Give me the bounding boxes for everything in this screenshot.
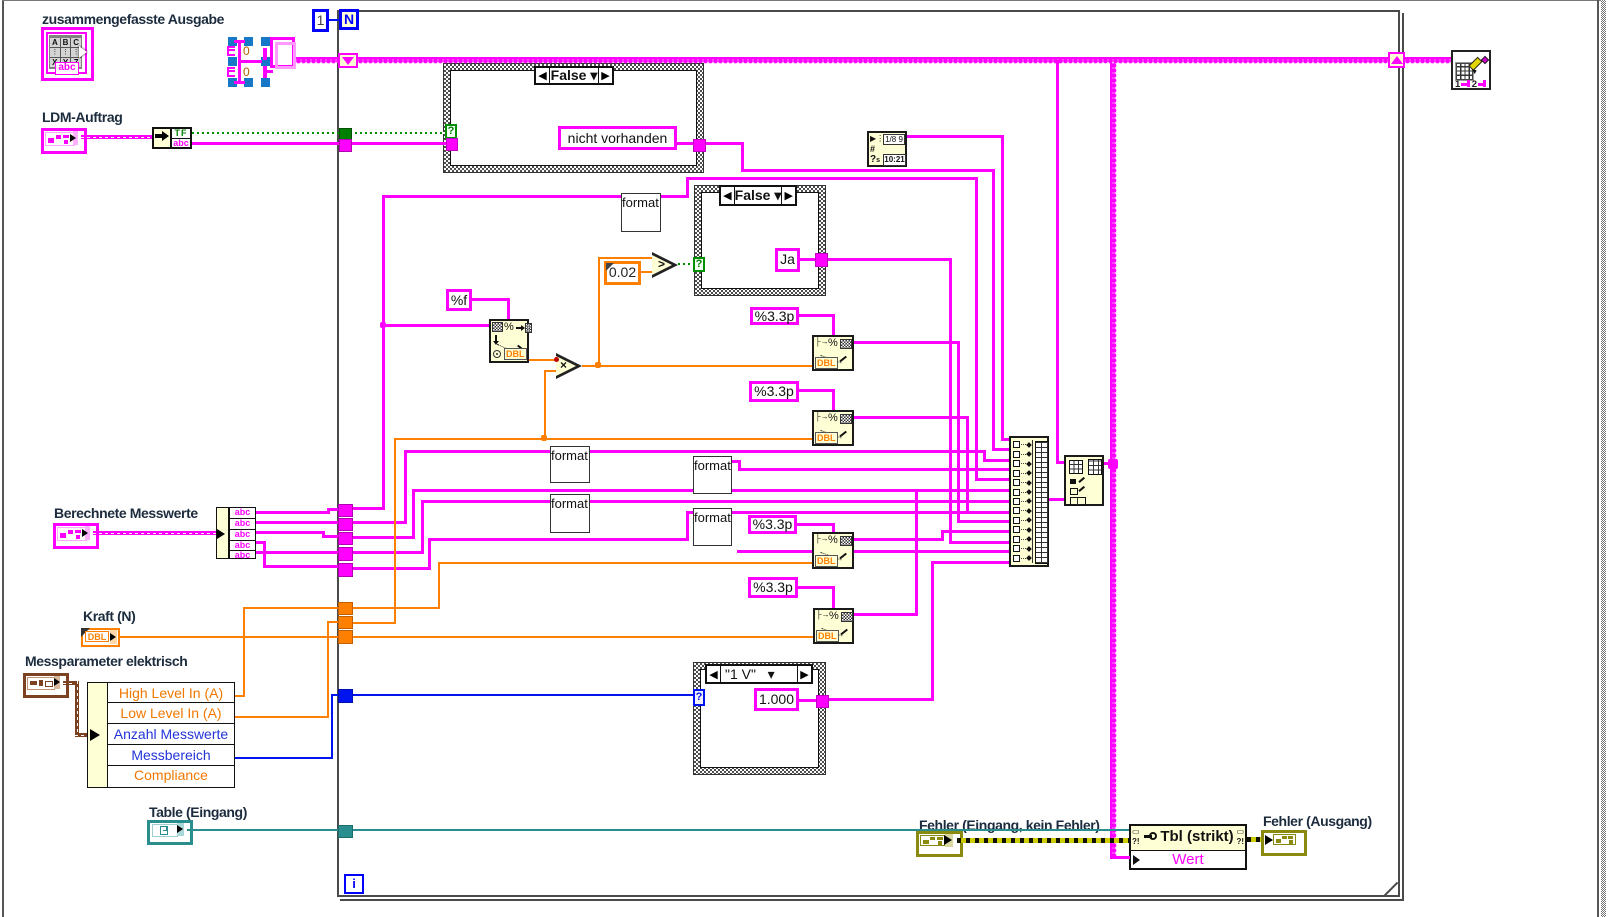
label Kraft (N)	[83, 608, 135, 624]
case 1 selector label	[534, 66, 614, 85]
vertical 2D wire from SR line down to build-table output and Wert property	[1110, 63, 1117, 858]
unbundle node (5 x abc)	[216, 507, 229, 559]
orange branch up to multiply lower input	[544, 370, 546, 440]
case structure 2 border	[694, 185, 826, 296]
loop count terminal N	[339, 9, 359, 30]
wire %3.3p4 to format-into-string4	[798, 586, 835, 589]
element: empty string constant square	[270, 37, 295, 68]
wire SR branch down to build table accumulated-table input	[1056, 60, 1059, 462]
wire LDM control to converter (cluster wire)	[81, 135, 153, 139]
wire date/time out right then down x1001 to concat row1	[907, 135, 1004, 138]
error wire control to property node	[957, 838, 1129, 843]
pane boundary chequer strip right	[1601, 0, 1606, 917]
wire scan DBL out to multiply	[529, 359, 556, 361]
error cluster indicator Fehler Ausgang	[1261, 830, 1307, 856]
initialize array node frame (magenta)	[238, 40, 241, 84]
wire TF boolean to loop tunnel (green dotted)	[192, 132, 340, 134]
subVI icon (table write, top right outside loop)	[1451, 50, 1491, 90]
label zusammengefasste Ausgabe	[42, 11, 224, 27]
string constant Ja	[775, 248, 800, 272]
wire Berechnete control to unbundle (cluster wire)	[93, 531, 217, 535]
orange wire tunnelC straight right to E+%4 DBL input	[351, 636, 813, 638]
orange wire tunnelB right, up x394, y438 long right to E+%2 DBL input	[351, 622, 396, 624]
wire Berechnete-4: tunnel4 right, riser x421 up, long y500 to concat row7	[351, 551, 424, 554]
case 2 selector tunnel ?	[693, 257, 705, 272]
wire Table control to loop tunnel (teal)	[187, 829, 338, 831]
wire 0.02 to greater-than bottom input	[641, 271, 652, 273]
corner wire to Wert input	[1110, 856, 1130, 859]
string constant nicht vorhanden	[558, 126, 677, 150]
string constant format 5	[693, 508, 732, 546]
blue wire tunnel to case3 selector	[351, 694, 694, 696]
wire %3.3p1 to format-into-string1	[799, 314, 835, 317]
outer window frame top edge	[2, 0, 1604, 1]
format into string node 4	[813, 608, 854, 644]
long vertical x383 from y195 down to Berechnete tunnel1 wire	[382, 195, 385, 510]
for loop 3d shadow right	[1402, 13, 1404, 901]
wire Messbereich to blue tunnel	[235, 757, 333, 759]
wire greater-than to case2 selector (green dotted)	[678, 263, 694, 265]
greater-than node	[652, 252, 678, 278]
shift register left terminal	[338, 53, 358, 68]
2D wire right SR to subVI	[1405, 57, 1451, 64]
wire tunnel to case1 ? (green dotted)	[350, 132, 446, 134]
concatenate strings node (13 inputs)	[1009, 436, 1049, 567]
string constant format 2	[550, 446, 590, 483]
wire %3.3p3 to format-into-string3	[797, 523, 835, 526]
unbundle by name node	[87, 682, 108, 788]
coercion dot on multiply input	[554, 357, 559, 362]
wire case1 output right, down, long right at y170, down at x992 to concat row2	[704, 142, 744, 145]
iteration terminal i	[344, 874, 364, 894]
string constant format 4	[693, 456, 732, 494]
loop tunnel boolean (green)	[339, 128, 352, 141]
outer window frame right edge	[1597, 0, 1599, 917]
loop tunnels orange A B C	[338, 602, 353, 615]
cluster control icon Messparameter (brown)	[23, 673, 69, 698]
loop tunnels for Berechnete strings 1-5	[338, 504, 353, 517]
wire E+%2 out right then down x966 to concat row8 join	[966, 416, 969, 511]
orange wire tunnelA right, up x438, y562 right to E+%3 DBL input	[351, 607, 440, 609]
for loop 3d shadow bottom	[340, 899, 1404, 901]
case structure 3 border	[693, 662, 826, 775]
string constant %3.3p 1	[750, 307, 799, 325]
string constant %3.3p 3	[748, 515, 797, 534]
wire Berechnete-1: long horizontal y195 under format const, riser at x686 to y177, right to x975, down to concat row5	[384, 195, 689, 198]
wire multiply out with junction	[582, 365, 813, 367]
refnum control icon Table	[147, 820, 193, 845]
cluster control icon Berechnete Messwerte	[53, 523, 99, 549]
wire abc string to loop tunnel	[192, 142, 340, 145]
wire unbundle row1 to tunnel1	[256, 511, 330, 514]
wire E+%1 out right then down x957 to concat row9	[854, 341, 960, 344]
case 1 input tunnel (string)	[446, 138, 458, 151]
wire concat row12 feed (y551)	[737, 550, 1010, 553]
format into string node 1	[812, 335, 854, 371]
string constant %3.3p 4	[748, 577, 798, 598]
loop resize corner glyph	[1384, 882, 1398, 895]
dimension bracket 2	[227, 67, 235, 77]
case 1 selector tunnel ?	[445, 124, 457, 139]
shift register right terminal	[1388, 52, 1405, 68]
label Fehler (Ausgang)	[1263, 813, 1372, 829]
case 3 selector label	[705, 664, 813, 684]
wire E+%4 out right then up x915 joining row6 line	[854, 613, 918, 616]
wire init array to shift register (2D string wire)	[296, 57, 338, 64]
loop tunnel teal (Table)	[338, 825, 353, 838]
outer window frame left edge	[2, 0, 4, 917]
wire unbundle row2 to tunnel2	[256, 521, 340, 524]
numeric constant 1	[312, 9, 329, 32]
wire tunnel to case1 input	[350, 142, 446, 145]
property node Tbl (strikt)	[1129, 824, 1247, 870]
wire tunnel1 to riser x383	[351, 507, 385, 510]
string constant format 3	[550, 494, 590, 533]
cluster-of-strings control icon LDM-Auftrag	[41, 128, 87, 154]
wire 1.000 to out tunnel	[799, 699, 817, 702]
junction dot at scan branch	[380, 322, 386, 328]
case 2 selector label	[719, 185, 797, 206]
wire branch up to greater-than top input	[598, 257, 600, 367]
wire Ja out right then down x949 to concat row11	[826, 258, 952, 261]
wire unbundle row4 to tunnel5 (crossing)	[256, 541, 266, 544]
shift register 2D wire across top	[358, 57, 1390, 64]
for loop border	[337, 10, 1400, 897]
wire Berechnete-3: tunnel3 right, riser x412 up, long y489 to concat row6	[351, 536, 415, 539]
wire unbundle row5 to tunnel4	[256, 551, 340, 554]
2D string array indicator icon	[41, 27, 94, 81]
wire build table out to junction	[1104, 462, 1112, 465]
wire 1.000 case out right then up x931 to concat row13	[827, 698, 934, 701]
format date/time string node	[867, 131, 907, 167]
wire Berechnete-5: tunnel5 right, riser x428 up, y538 right to x686, up to y511, long right to concat row8	[351, 567, 431, 570]
selection handles (blue squares)	[228, 37, 237, 46]
format into string node 2	[812, 410, 854, 446]
converter node (to variant)	[152, 127, 172, 149]
dim size constant 0 (second)	[243, 66, 253, 79]
wire Berechnete-2: tunnel2 right, riser x404 up, long y450 to jog x983 down to concat row3	[351, 521, 407, 524]
wire concatenate output to build table row input	[1049, 498, 1064, 501]
wire unbundle row3 to tunnel3 (jog down)	[256, 531, 325, 534]
wire Ja to out tunnel	[800, 258, 816, 261]
loop tunnel string (magenta)	[339, 139, 352, 152]
case 2 output tunnel	[815, 253, 828, 267]
case 3 output tunnel	[816, 695, 829, 708]
wire 1 to N	[329, 19, 339, 21]
wire High Level In to tunnel A	[235, 695, 245, 697]
build table node	[1064, 455, 1104, 506]
label Berechnete Messwerte	[54, 505, 198, 521]
teal wire tunnel to property node reference input	[351, 829, 1129, 831]
error cluster control Fehler Eingang	[916, 831, 963, 857]
DBL control icon Kraft	[81, 628, 120, 647]
wire %3.3p2 to format-into-string2	[799, 389, 835, 392]
wire E+%3 out right, jog up at x941 to concat row10	[854, 538, 944, 541]
dimension bracket 1	[227, 46, 235, 56]
wire nicht vorhanden to out tunnel	[677, 142, 694, 145]
string constant %3.3p 2	[749, 381, 799, 402]
junction dot on orange y438	[541, 435, 547, 441]
label LDM-Auftrag	[42, 109, 122, 125]
label Fehler (Eingang, kein Fehler)	[919, 817, 1100, 833]
wire %f to scan format input	[472, 298, 510, 301]
loop tunnel blue (Messbereich)	[338, 689, 353, 703]
error wire property node to indicator	[1247, 837, 1261, 842]
numeric constant 0.02	[604, 261, 641, 285]
wire format const jog to concat row4 (y468)	[732, 460, 741, 463]
string constant %f	[446, 289, 472, 311]
case structure 1 border	[443, 63, 704, 173]
multiply node	[556, 353, 582, 379]
wire Low Level In to tunnel B	[235, 716, 329, 718]
empty string/path? node TF abc	[170, 127, 192, 149]
format into string node 3	[812, 532, 854, 569]
case 1 output tunnel	[693, 139, 706, 152]
wire Kraft to loop tunnel	[120, 636, 338, 638]
scan from string node	[489, 319, 529, 363]
label Messparameter elektrisch	[25, 653, 187, 669]
case 3 selector tunnel ? (integer)	[693, 689, 705, 706]
wire Messparameter to unbundle-by-name (brown cluster wire)	[63, 681, 79, 685]
string constant format 1 (top, near case2)	[621, 193, 661, 232]
dim size constant 0 (first)	[243, 45, 253, 58]
wire junction to scan string input	[384, 324, 489, 327]
string constant 1.000	[754, 688, 799, 711]
junction dot at build table output	[1108, 459, 1118, 469]
label Table (Eingang)	[149, 804, 247, 820]
